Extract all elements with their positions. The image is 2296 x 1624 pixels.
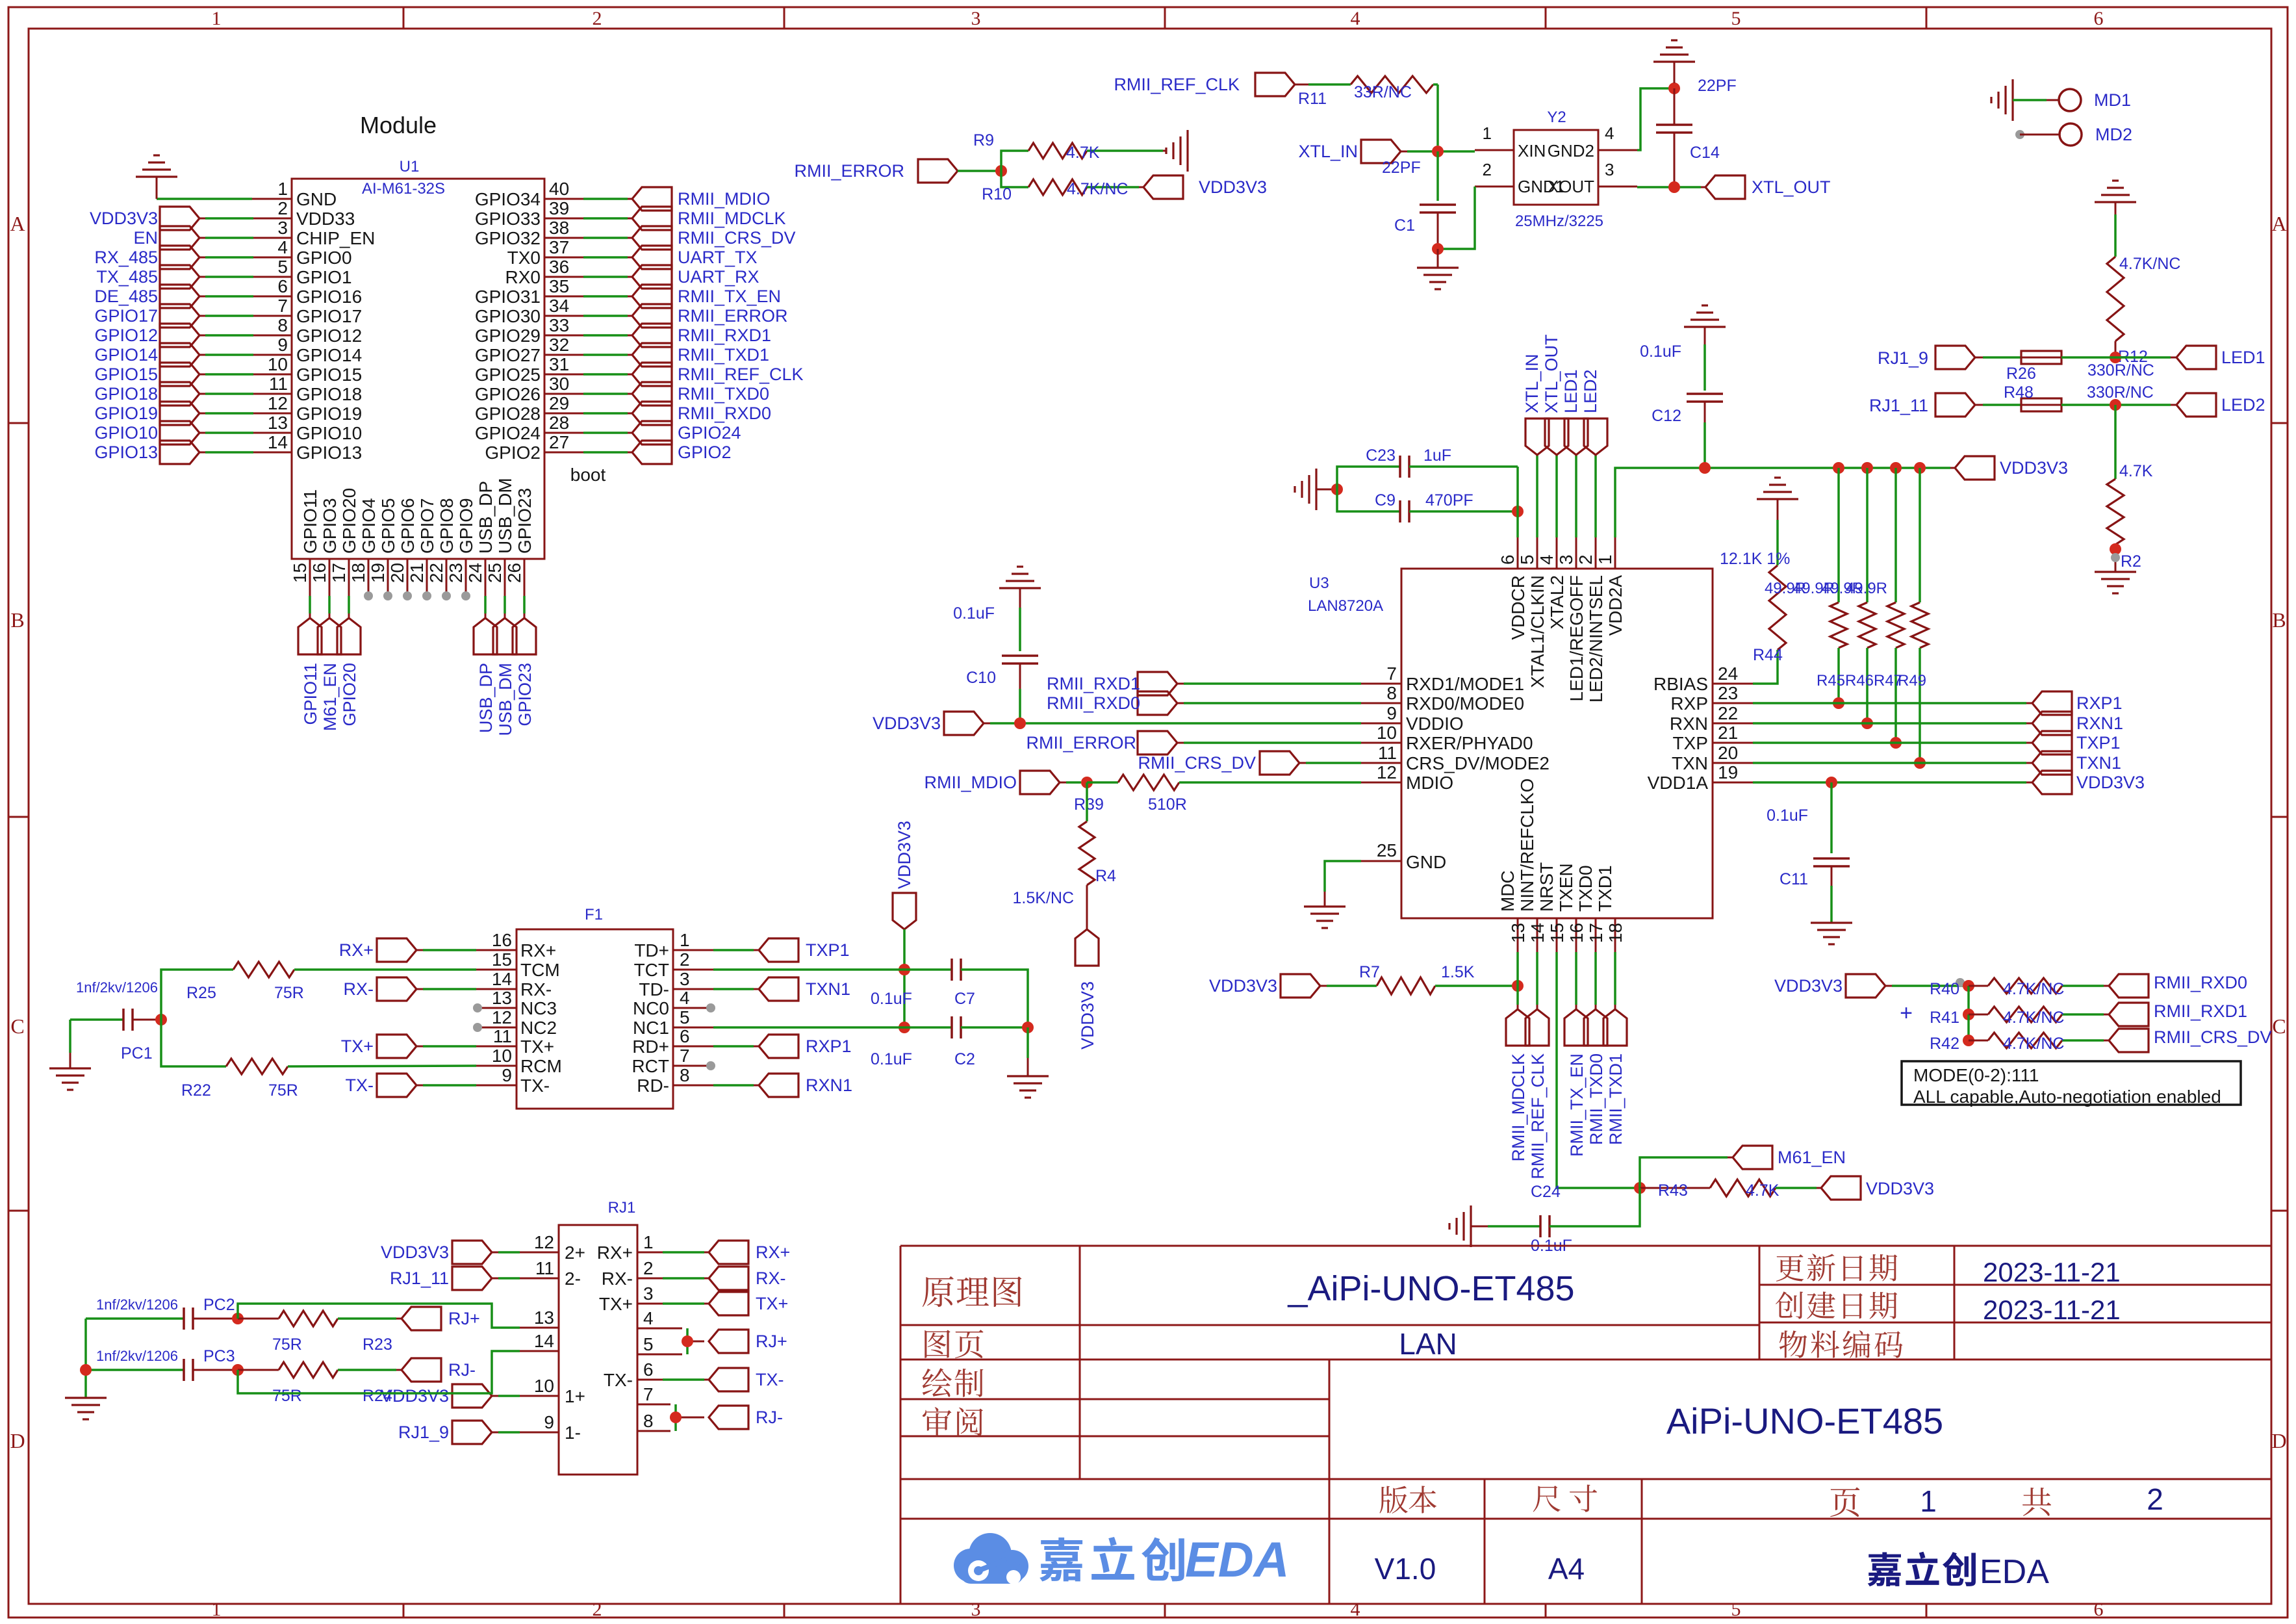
svg-text:33R/NC: 33R/NC: [1354, 83, 1412, 101]
svg-text:GPIO24: GPIO24: [678, 423, 741, 443]
svg-text:RX+: RX+: [339, 940, 374, 960]
svg-text:3: 3: [277, 218, 288, 238]
svg-text:2: 2: [2147, 1482, 2163, 1516]
resistor R25 75R: [161, 962, 476, 1020]
net flag RX- (RJ1 right): [709, 1267, 786, 1290]
svg-text:GND2: GND2: [1548, 141, 1594, 161]
U3 pin 19 VDD1A: [1648, 762, 1753, 793]
wire ground to MD1: [2013, 99, 2058, 101]
junction R40: [1956, 978, 1974, 992]
svg-text:RMII_TX_EN: RMII_TX_EN: [678, 287, 781, 306]
svg-text:12: 12: [534, 1232, 554, 1252]
resistor R4 1.5K/NC: [1013, 782, 1117, 929]
svg-text:3: 3: [680, 969, 690, 989]
svg-text:2: 2: [277, 198, 288, 218]
svg-text:GPIO28: GPIO28: [475, 404, 541, 424]
resistor R9 4.7K: [973, 131, 1163, 171]
svg-text:LAN: LAN: [1399, 1327, 1457, 1361]
net flag RMII_MDCLK below U3: [1506, 952, 1529, 1162]
svg-text:+: +: [1900, 1001, 1913, 1025]
resistor R45 49.9R: [1765, 468, 1847, 703]
wire VDD3V3 to U3 pin9: [984, 723, 1361, 725]
svg-text:3: 3: [971, 1599, 981, 1620]
ground left of C23/C9: [1295, 469, 1332, 510]
svg-text:11: 11: [269, 374, 288, 394]
svg-text:NC0: NC0: [633, 998, 669, 1018]
net flag TXP1 (F1): [713, 938, 850, 962]
IC U1 AI-M61-32S body: [292, 158, 544, 559]
title label 创建日期: [1776, 1291, 1897, 1319]
U1 pin 14 GPIO13: [94, 432, 362, 464]
svg-text:RBIAS: RBIAS: [1653, 674, 1708, 694]
svg-text:R48: R48: [2004, 383, 2034, 402]
svg-text:13: 13: [534, 1308, 554, 1328]
svg-text:EN: EN: [133, 228, 158, 248]
svg-text:XTL_IN: XTL_IN: [1298, 142, 1358, 161]
svg-text:GPIO30: GPIO30: [475, 306, 541, 326]
svg-text:5: 5: [643, 1334, 654, 1354]
svg-text:TX+: TX+: [599, 1294, 633, 1314]
svg-text:0.1uF: 0.1uF: [953, 604, 995, 623]
resistor R26 330R/NC (box style): [1975, 351, 2176, 383]
svg-text:GPIO15: GPIO15: [94, 365, 158, 384]
svg-text:0.1uF: 0.1uF: [1767, 806, 1808, 825]
svg-text:17: 17: [329, 563, 349, 583]
svg-text:U1: U1: [400, 158, 420, 175]
net flag TX+ (RJ1 right): [709, 1292, 788, 1315]
svg-text:2-: 2-: [565, 1269, 581, 1289]
svg-text:GPIO9: GPIO9: [456, 498, 476, 554]
ground below U3 pin 25: [1304, 907, 1346, 928]
net flag M61_EN: [1733, 1146, 1846, 1169]
svg-text:15: 15: [290, 563, 310, 583]
svg-text:RMII_RXD0: RMII_RXD0: [2154, 973, 2247, 992]
svg-text:CRS_DV/MODE2: CRS_DV/MODE2: [1406, 753, 1550, 773]
svg-text:GPIO24: GPIO24: [475, 423, 541, 443]
svg-text:13: 13: [268, 413, 288, 433]
svg-text:EDA: EDA: [1980, 1553, 2049, 1591]
svg-text:6: 6: [643, 1360, 654, 1380]
svg-text:V1.0: V1.0: [1375, 1552, 1436, 1586]
svg-text:TX+: TX+: [520, 1037, 554, 1057]
svg-text:GPIO26: GPIO26: [475, 384, 541, 404]
title label 共: [2022, 1488, 2051, 1516]
U3 pin 16 TXEN: [1556, 863, 1587, 952]
svg-text:B: B: [10, 608, 24, 632]
svg-text:GPIO12: GPIO12: [94, 326, 158, 345]
junction R41: [1963, 986, 1974, 1020]
U1 pin 9 GPIO14: [94, 335, 362, 367]
svg-text:XTL_OUT: XTL_OUT: [1752, 177, 1831, 197]
title label 审阅: [923, 1407, 983, 1436]
title value V1.0: [1375, 1552, 1436, 1586]
net flag RJ1_11: [1869, 393, 1975, 417]
IC U3 LAN8720A body: [1308, 569, 1713, 918]
net flag RJ1_9 (RJ1 pin9): [398, 1421, 520, 1444]
svg-text:EDA: EDA: [1185, 1532, 1289, 1588]
svg-text:GPIO11: GPIO11: [300, 489, 320, 554]
svg-text:A: A: [2271, 212, 2286, 235]
resistor R40 4.7K/NC: [1930, 978, 2109, 998]
svg-text:2023-11-21: 2023-11-21: [1983, 1257, 2121, 1287]
F1 pin 7 RCT: [631, 1046, 715, 1076]
wire U3 row to RXN1: [1753, 722, 2032, 725]
F1 pin 2 TCT: [634, 949, 713, 980]
F1 pin 5 NC1: [633, 1007, 713, 1038]
svg-text:RMII_RXD1: RMII_RXD1: [1047, 674, 1140, 693]
junction LED2 row to R2: [2110, 399, 2121, 411]
svg-text:10: 10: [534, 1376, 554, 1396]
junction TCT row: [899, 964, 910, 975]
junction R42: [1963, 1014, 1974, 1046]
U3 pin 1 VDD2A: [1595, 537, 1626, 636]
svg-text:GPIO20: GPIO20: [339, 488, 359, 554]
U1 pin 23 GPIO9: [446, 498, 476, 600]
svg-text:VDD3V3: VDD3V3: [1866, 1179, 1934, 1198]
svg-text:RX0: RX0: [505, 267, 541, 287]
svg-text:12.1K 1%: 12.1K 1%: [1720, 550, 1790, 568]
svg-text:GPIO33: GPIO33: [475, 209, 541, 229]
svg-text:4: 4: [680, 988, 690, 1008]
svg-text:GPIO2: GPIO2: [485, 443, 541, 463]
net flag RMII_RXD0 (U3): [1047, 691, 1361, 715]
svg-text:28: 28: [549, 413, 569, 433]
svg-text:RMII_TXD1: RMII_TXD1: [678, 345, 769, 365]
svg-text:40: 40: [549, 179, 569, 199]
svg-text:R22: R22: [181, 1081, 211, 1100]
net flag TX- (F1 left): [346, 1074, 477, 1097]
net flag RMII_RXD1: [2109, 1001, 2247, 1026]
svg-text:12: 12: [268, 393, 288, 413]
F1 pin 1 TD+: [634, 930, 713, 960]
svg-text:C14: C14: [1690, 144, 1720, 162]
svg-text:DE_485: DE_485: [94, 287, 158, 306]
svg-text:17: 17: [1586, 923, 1606, 943]
svg-text:RX-: RX-: [602, 1269, 633, 1289]
net flag VDD3V3 (R43): [1821, 1176, 1934, 1200]
svg-text:1: 1: [1595, 554, 1615, 565]
svg-text:boot: boot: [570, 465, 606, 485]
net flag RJ+ (RJ1): [709, 1330, 787, 1353]
junction U3 pin6 / C9: [1512, 506, 1524, 517]
svg-text:VDDIO: VDDIO: [1406, 714, 1464, 734]
U1 pin 7 GPIO17: [94, 296, 362, 328]
junction R49 bottom: [1914, 757, 1926, 769]
svg-text:VDDCR: VDDCR: [1508, 575, 1528, 640]
svg-text:AI-M61-32S: AI-M61-32S: [362, 180, 445, 198]
net flag RMII_ERROR (top): [794, 159, 958, 183]
svg-text:F1: F1: [585, 906, 603, 923]
F1 pin 16 RX+: [476, 930, 556, 960]
ground at U1 pin 1: [136, 155, 177, 199]
svg-text:USB_DM: USB_DM: [495, 478, 515, 554]
svg-text:R49: R49: [1898, 672, 1926, 690]
resistor R42 4.7K/NC: [1930, 1033, 2109, 1053]
svg-text:RJ+: RJ+: [756, 1332, 787, 1351]
svg-text:VDD3V3: VDD3V3: [1774, 976, 1843, 996]
svg-text:4.7K/NC: 4.7K/NC: [2003, 980, 2064, 998]
svg-text:16: 16: [1566, 923, 1587, 943]
svg-text:1.5K: 1.5K: [1441, 963, 1475, 981]
net flag RXP1 (U3 right): [2032, 691, 2123, 715]
svg-text:RMII_MDIO: RMII_MDIO: [678, 189, 771, 209]
svg-text:GPIO2: GPIO2: [678, 443, 732, 462]
resistor R46 49.9R: [1793, 468, 1876, 723]
svg-text:NC3: NC3: [520, 998, 557, 1018]
RJ1 pin 4: [559, 1308, 654, 1328]
wire U3 row to VDD3V3: [1753, 781, 2032, 784]
svg-text:75R: 75R: [268, 1081, 298, 1100]
U1 pin 19 GPIO5: [368, 498, 398, 600]
svg-text:38: 38: [549, 218, 569, 238]
svg-text:PC1: PC1: [121, 1044, 153, 1063]
resistor R39 510R: [1074, 775, 1361, 814]
pad MD1: [2059, 89, 2131, 111]
svg-text:14: 14: [1527, 923, 1548, 943]
svg-text:RMII_TXD1: RMII_TXD1: [1606, 1053, 1626, 1145]
svg-text:XTL_IN: XTL_IN: [1522, 354, 1542, 413]
svg-text:XTL_OUT: XTL_OUT: [1542, 334, 1561, 413]
RJ1 right lead y2006: [637, 1303, 709, 1305]
title label 图页: [925, 1330, 983, 1358]
svg-text:GPIO1: GPIO1: [296, 267, 352, 287]
svg-text:GPIO18: GPIO18: [296, 384, 362, 404]
wire U3 GND to ground: [1325, 861, 1361, 907]
svg-text:1: 1: [212, 8, 222, 29]
U3 pin 15 NRST: [1537, 862, 1567, 952]
svg-text:M61_EN: M61_EN: [320, 663, 340, 731]
svg-text:GPIO7: GPIO7: [417, 498, 437, 554]
svg-text:330R/NC: 330R/NC: [2087, 361, 2154, 380]
title label 绘制: [923, 1368, 984, 1397]
ground below C11: [1811, 923, 1852, 944]
svg-text:23: 23: [446, 563, 466, 583]
svg-text:RJ-: RJ-: [756, 1408, 783, 1427]
svg-text:R2: R2: [2121, 552, 2141, 571]
svg-text:49.9R: 49.9R: [1846, 580, 1887, 597]
svg-text:C12: C12: [1652, 407, 1681, 425]
svg-text:3: 3: [1556, 554, 1576, 565]
svg-text:R46: R46: [1845, 672, 1874, 690]
svg-text:PC2: PC2: [203, 1296, 235, 1314]
svg-text:RMII_REF_CLK: RMII_REF_CLK: [1114, 75, 1240, 94]
U3 pin 13 MDC: [1498, 870, 1528, 952]
capacitor C7 0.1uF: [713, 959, 1028, 1027]
svg-text:USB_DP: USB_DP: [476, 663, 496, 733]
svg-text:RXP1: RXP1: [806, 1037, 852, 1056]
svg-text:A: A: [10, 212, 25, 235]
U1 pin 18 GPIO4: [348, 498, 379, 600]
junction PC3 node: [232, 1364, 244, 1376]
svg-text:TD-: TD-: [639, 979, 669, 999]
U1 pin 24 USB_DP: [465, 481, 497, 733]
net flag XTL_OUT above U3 pin4: [1542, 334, 1568, 537]
wire to M61_EN flag: [1640, 1157, 1733, 1188]
svg-text:GND: GND: [296, 189, 337, 209]
junction PC1 node: [155, 1014, 167, 1025]
U3 pin 3 LED1/REGOFF: [1556, 537, 1587, 701]
svg-text:RMII_TXD0: RMII_TXD0: [678, 384, 769, 404]
svg-text:TXN: TXN: [1672, 753, 1708, 773]
U1 pin 34 GPIO30 -> RMII_ERROR: [475, 296, 788, 328]
ground above C12: [1684, 305, 1726, 344]
svg-text:RXER/PHYAD0: RXER/PHYAD0: [1406, 733, 1533, 753]
svg-text:470PF: 470PF: [1425, 491, 1473, 509]
title label 原理图: [923, 1276, 1022, 1307]
title value AiPi-UNO-ET485: [1666, 1400, 1943, 1441]
svg-text:VDD3V3: VDD3V3: [90, 209, 158, 228]
svg-text:510R: 510R: [1148, 795, 1187, 814]
svg-text:2+: 2+: [565, 1243, 585, 1263]
svg-text:VDD3V3: VDD3V3: [2000, 458, 2068, 478]
svg-text:6: 6: [277, 276, 288, 296]
svg-text:RMII_REF_CLK: RMII_REF_CLK: [678, 365, 804, 384]
svg-text:23: 23: [1718, 683, 1738, 703]
svg-text:RX-: RX-: [344, 979, 374, 999]
svg-text:2: 2: [643, 1258, 654, 1278]
svg-text:R4: R4: [1095, 867, 1116, 885]
title value total 2: [2147, 1482, 2163, 1516]
net flag VDD3V3 below R4: [1075, 929, 1099, 1050]
svg-text:RJ-: RJ-: [448, 1360, 476, 1380]
capacitor PC1 1nf/2kv/1206: [70, 979, 158, 1063]
svg-text:RD+: RD+: [632, 1037, 669, 1057]
junction rail R49: [1914, 462, 1926, 474]
svg-text:TXN1: TXN1: [2076, 753, 2121, 773]
svg-text:10: 10: [492, 1046, 512, 1066]
net flag VDD3V3 (U3 VDDIO): [873, 712, 984, 735]
net flag XTL_IN (crystal): [1298, 140, 1420, 177]
svg-text:VDD3V3: VDD3V3: [1209, 976, 1277, 996]
svg-text:0.1uF: 0.1uF: [1640, 342, 1681, 361]
U1 pin 8 GPIO12: [94, 315, 362, 347]
U1 pin 30 GPIO26 -> RMII_TXD0: [475, 374, 769, 406]
U1 pin 11 GPIO18: [94, 374, 362, 406]
U1 pin 15 GPIO11: [290, 489, 322, 725]
svg-text:C10: C10: [966, 669, 996, 687]
wire VDD3V3 to R40: [1885, 985, 1963, 987]
svg-text:RX+: RX+: [597, 1243, 633, 1263]
svg-text:TD+: TD+: [634, 940, 669, 960]
net flag VDD3V3 (RJ1 pin10): [381, 1384, 520, 1408]
note MODE box: [1902, 1061, 2241, 1107]
net flag LED1 above U3 pin3: [1561, 369, 1588, 537]
svg-text:1nf/2kv/1206: 1nf/2kv/1206: [76, 979, 158, 996]
junction R7 / U3 pin13: [1512, 980, 1524, 992]
svg-text:1: 1: [212, 1599, 222, 1620]
ground above R12: [2095, 181, 2136, 257]
RJ1 pin 14: [520, 1331, 559, 1351]
svg-text:C: C: [2272, 1014, 2286, 1038]
svg-text:RMII_REF_CLK: RMII_REF_CLK: [1528, 1053, 1548, 1179]
logo JLCEDA cloud icon: [954, 1533, 1028, 1584]
svg-text:22PF: 22PF: [1698, 77, 1737, 95]
svg-text:9: 9: [277, 335, 288, 355]
U3 pin 11 CRS_DV/MODE2: [1361, 743, 1550, 773]
junction C12 on rail: [1699, 462, 1711, 474]
capacitor PC3 1nf/2kv/1206: [86, 1347, 235, 1381]
svg-text:TXD0: TXD0: [1575, 865, 1596, 912]
svg-text:VDD1A: VDD1A: [1648, 773, 1709, 793]
U3 pin 10 RXER/PHYAD0: [1361, 723, 1533, 753]
svg-text:TX+: TX+: [756, 1294, 788, 1313]
svg-text:VDD3V3: VDD3V3: [1199, 177, 1267, 197]
wire VDD3V3 rail from U3 pin1: [1615, 468, 1955, 537]
svg-text:0.1uF: 0.1uF: [871, 1050, 912, 1068]
resistor R41 4.7K/NC: [1930, 1007, 2109, 1027]
U1 pin 29 GPIO28 -> RMII_RXD0: [475, 393, 771, 425]
net flag TX- (RJ1 right): [709, 1368, 784, 1391]
capacitor PC2 1nf/2kv/1206: [86, 1296, 235, 1330]
ground above C14: [1653, 40, 1737, 95]
title value create date: [1983, 1295, 2121, 1325]
net flag LED2: [2176, 393, 2265, 417]
wire U3 row to TXN1: [1753, 762, 2032, 764]
svg-text:TX-: TX-: [520, 1076, 550, 1096]
svg-text:GPIO5: GPIO5: [378, 498, 398, 554]
svg-text:4.7K: 4.7K: [1746, 1181, 1779, 1200]
svg-text:13: 13: [1508, 923, 1528, 943]
svg-text:R23: R23: [363, 1335, 392, 1354]
svg-text:15: 15: [492, 949, 512, 970]
wire U3 row to RXP1: [1753, 702, 2032, 704]
svg-text:C: C: [10, 1014, 24, 1038]
svg-text:LED1: LED1: [2221, 348, 2265, 367]
svg-text:330R/NC: 330R/NC: [2087, 383, 2154, 402]
U3 pin 20 TXN: [1672, 743, 1753, 773]
junction C14 top: [1668, 83, 1680, 94]
svg-text:RJ1_9: RJ1_9: [1878, 348, 1928, 368]
svg-text:A4: A4: [1548, 1552, 1585, 1586]
svg-text:9: 9: [544, 1412, 554, 1432]
svg-text:TXN1: TXN1: [806, 979, 850, 999]
U3 pin 12 MDIO: [1361, 762, 1453, 793]
svg-text:24: 24: [1718, 664, 1738, 684]
svg-text:10: 10: [268, 354, 288, 374]
svg-text:4.7K/NC: 4.7K/NC: [1067, 180, 1128, 198]
svg-text:TXP1: TXP1: [806, 940, 850, 960]
RJ1 pin 10: [520, 1376, 585, 1406]
svg-text:11: 11: [1378, 743, 1397, 763]
RJ1 pin 6: [604, 1360, 654, 1390]
wire Y2 pin2 to C1 bottom: [1438, 187, 1475, 249]
svg-text:4.7K: 4.7K: [1066, 144, 1100, 162]
svg-text:GPIO17: GPIO17: [296, 306, 362, 326]
svg-text:VDD3V3: VDD3V3: [895, 821, 914, 889]
svg-text:TCM: TCM: [520, 960, 560, 980]
resistor R43 4.7K: [1640, 1179, 1821, 1200]
svg-text:M61_EN: M61_EN: [1778, 1148, 1846, 1167]
resistor R10 4.7K/NC to VDD3V3: [982, 171, 1143, 203]
svg-text:RMII_CRS_DV: RMII_CRS_DV: [2154, 1027, 2272, 1047]
U1 pin 13 GPIO10: [94, 413, 362, 445]
svg-text:GPIO12: GPIO12: [296, 326, 362, 346]
U1 pin 38 GPIO32 -> RMII_CRS_DV: [475, 218, 796, 250]
junction NC1 row: [899, 1022, 910, 1033]
junction RJ- tie: [670, 1411, 682, 1423]
U1 pin 2 VDD33: [90, 198, 355, 230]
svg-text:RMII_RXD1: RMII_RXD1: [678, 326, 771, 345]
U3 pin 25 GND: [1361, 840, 1446, 872]
net flag RX+ (RJ1 right): [709, 1241, 790, 1264]
junction C10/VDDIO: [1014, 717, 1026, 729]
junction rail R45: [1833, 462, 1844, 474]
net flag XTL_IN above U3 pin5: [1522, 354, 1549, 537]
svg-text:RJ1_11: RJ1_11: [1869, 396, 1928, 415]
U3 pin 17 TXD0: [1575, 865, 1606, 952]
U3 pin 8 RXD0/MODE0: [1361, 683, 1524, 714]
F1 pin 11 TX+: [476, 1026, 554, 1057]
